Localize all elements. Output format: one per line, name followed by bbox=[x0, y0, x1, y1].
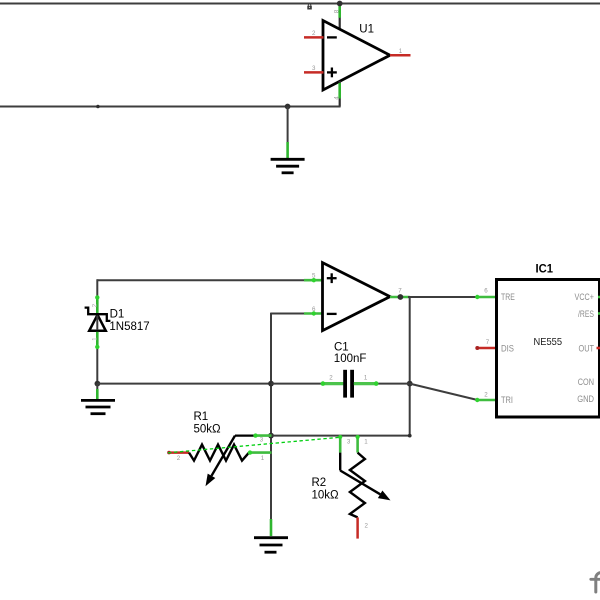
pin number 7 (DIS) bbox=[486, 339, 490, 346]
svg-text:50kΩ: 50kΩ bbox=[194, 424, 222, 436]
wire ground rail (upper) bbox=[0, 106, 341, 108]
wire comparator +in (node A) bbox=[97, 278, 323, 282]
pin number 6 bbox=[312, 306, 316, 313]
pin OUT sliver bbox=[597, 347, 600, 350]
svg-text:6: 6 bbox=[312, 306, 316, 313]
pin DIS stub (unrouted) bbox=[475, 346, 497, 350]
ratsnest airwire R1-R2 bbox=[168, 437, 341, 453]
node junction output bbox=[398, 294, 404, 300]
pin VCC+ sliver bbox=[598, 296, 600, 299]
svg-text:5: 5 bbox=[312, 273, 316, 280]
label D1 value bbox=[109, 309, 149, 334]
node junction (ground tap) bbox=[285, 104, 291, 110]
svg-text:/RES: /RES bbox=[578, 309, 594, 320]
label C1 value bbox=[334, 341, 367, 365]
svg-text:4: 4 bbox=[333, 96, 340, 100]
svg-text:R2: R2 bbox=[312, 477, 327, 489]
node junction C1 left bbox=[268, 381, 274, 387]
wire to ground 2 bbox=[96, 384, 98, 400]
svg-text:2: 2 bbox=[484, 391, 488, 398]
wire R2 pin3 stub bbox=[338, 435, 342, 453]
pin number 1 (R1 right) bbox=[261, 455, 265, 462]
pin number 3 bbox=[312, 65, 316, 72]
svg-text:R1: R1 bbox=[194, 411, 209, 423]
svg-text:2: 2 bbox=[364, 523, 368, 530]
pin number 2 (C1) bbox=[329, 374, 333, 381]
svg-text:1: 1 bbox=[261, 455, 265, 462]
node junction top (pin 8 to V+ rail) bbox=[337, 1, 343, 7]
wire R2 pin1 stub bbox=[356, 435, 360, 453]
diode D1 (schottky 1N5817) bbox=[85, 295, 111, 349]
wire C1 right lead bbox=[354, 381, 410, 386]
svg-text:1: 1 bbox=[399, 48, 403, 55]
bendpoint bbox=[96, 105, 100, 109]
wire pin 4 stub bbox=[339, 81, 341, 107]
wire top rail bbox=[0, 3, 600, 5]
bendpoint lower right bbox=[408, 434, 412, 438]
svg-text:TRI: TRI bbox=[501, 395, 513, 406]
svg-text:D1: D1 bbox=[110, 309, 125, 321]
potentiometer R2 bbox=[340, 453, 390, 539]
pin 2 stub (inverting input, unrouted) bbox=[304, 36, 324, 39]
svg-text:7: 7 bbox=[486, 339, 490, 346]
svg-text:1: 1 bbox=[364, 438, 368, 445]
pin number 2 bbox=[312, 30, 316, 37]
pin number 3 (R1 wiper) bbox=[260, 436, 264, 443]
pin 1 stub (output, unrouted) bbox=[390, 54, 411, 57]
pin number 2 (R1 left) bbox=[177, 455, 181, 462]
svg-text:IC1: IC1 bbox=[536, 264, 554, 276]
label R2 value bbox=[312, 477, 340, 502]
svg-text:CON: CON bbox=[578, 377, 594, 388]
svg-text:1N5817: 1N5817 bbox=[109, 321, 149, 333]
op-amp U1 bbox=[323, 21, 390, 91]
svg-text:GND: GND bbox=[577, 394, 594, 405]
capacitor C1 bbox=[343, 370, 354, 398]
svg-text:6: 6 bbox=[484, 288, 488, 295]
pin number 1 bbox=[399, 48, 403, 55]
wire to ground 1 bbox=[287, 107, 289, 159]
wire TRI diagonal bbox=[410, 384, 497, 403]
svg-text:NE555: NE555 bbox=[534, 337, 563, 348]
svg-text:3: 3 bbox=[347, 438, 351, 445]
ground GND2 bbox=[81, 400, 115, 413]
pin number 8 bbox=[333, 9, 340, 13]
node junction wiper bbox=[268, 433, 274, 439]
wire lower rail bbox=[271, 435, 410, 437]
wire to ground 3 bbox=[270, 519, 273, 536]
node junction D1 bottom bbox=[95, 381, 101, 387]
lock icon bbox=[307, 4, 312, 10]
pin number 2 (TRI) bbox=[484, 391, 488, 398]
pin number 1 (R2) bbox=[364, 438, 368, 445]
wire pin 8 stub bbox=[339, 4, 341, 30]
label R1 value bbox=[194, 411, 222, 436]
wire left bus vertical bbox=[270, 313, 272, 521]
svg-text:OUT: OUT bbox=[579, 343, 595, 354]
ground GND1 bbox=[271, 159, 305, 173]
svg-text:7: 7 bbox=[398, 288, 402, 295]
pin number 6 (TRE) bbox=[484, 288, 488, 295]
svg-text:DIS: DIS bbox=[501, 343, 514, 354]
svg-text:3: 3 bbox=[260, 436, 264, 443]
pin number 2 (D1) bbox=[93, 303, 99, 307]
pin number 7 bbox=[398, 288, 402, 295]
pin number 1 (C1) bbox=[364, 374, 368, 381]
svg-text:VCC+: VCC+ bbox=[575, 292, 595, 303]
svg-text:2: 2 bbox=[177, 455, 181, 462]
pin number 1 (D1) bbox=[93, 337, 99, 341]
pin number 3 (R2) bbox=[347, 438, 351, 445]
svg-text:2: 2 bbox=[312, 30, 316, 37]
IC1 NE555 bbox=[497, 264, 600, 417]
wire right bus vertical bbox=[409, 297, 411, 436]
svg-text:10kΩ: 10kΩ bbox=[312, 489, 340, 501]
svg-text:U1: U1 bbox=[359, 24, 374, 36]
pin number 4 bbox=[333, 96, 340, 100]
wire comparator -in bbox=[271, 311, 323, 315]
svg-text:2: 2 bbox=[329, 374, 333, 381]
svg-text:TRE: TRE bbox=[501, 292, 515, 303]
wire bottom node rail bbox=[97, 383, 271, 385]
op-amp comparator U2 bbox=[323, 263, 391, 331]
pin /RES sliver bbox=[598, 312, 600, 315]
potentiometer R1 bbox=[167, 436, 271, 487]
svg-text:1: 1 bbox=[364, 374, 368, 381]
svg-text:3: 3 bbox=[312, 65, 316, 72]
label U1 bbox=[359, 24, 374, 36]
svg-text:100nF: 100nF bbox=[334, 353, 367, 365]
svg-text:C1: C1 bbox=[334, 341, 349, 353]
wire R1 wiper lead bbox=[235, 433, 272, 437]
wire comparator output bbox=[390, 295, 497, 299]
wire C1 left lead bbox=[271, 381, 343, 386]
pin 3 stub (non-inverting input, unrouted) bbox=[304, 71, 324, 74]
ground GND3 bbox=[254, 538, 288, 553]
node junction C1 right bbox=[407, 381, 413, 387]
wire D1 branch vertical bbox=[96, 279, 98, 383]
pin number 5 bbox=[312, 273, 316, 280]
svg-text:8: 8 bbox=[333, 9, 340, 13]
pin number 2 (R2 bottom) bbox=[364, 523, 368, 530]
fritzing watermark f bbox=[591, 573, 600, 593]
